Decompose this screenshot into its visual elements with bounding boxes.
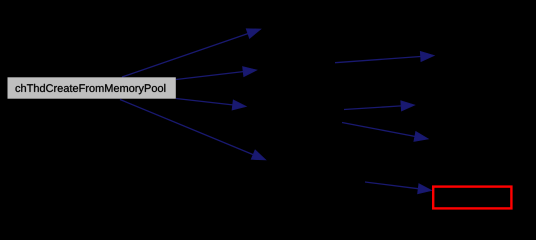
wire edge8 arrowhead [418,184,433,194]
wire edge6 shaft [344,106,401,110]
wire edge4 arrowhead [251,150,266,160]
wire edge3 arrowhead [232,100,247,110]
wire edge5 arrowhead [420,51,434,61]
wire edge5 shaft [335,57,421,63]
wire edge2 shaft [176,72,243,80]
wire edge1 shaft [122,34,248,77]
wire edge4 shaft [120,100,253,155]
node chThdCreateFromMemoryPool label [16,84,166,94]
wire edge7 shaft [342,123,415,137]
wire edge1 arrowhead [246,29,261,39]
wire edge7 arrowhead [414,131,429,141]
wire edge2 arrowhead [243,67,258,77]
node chThdCreateFromMemoryPool box [8,77,176,98]
wire edge8 shaft [365,182,418,189]
node (truncated, red) box [433,187,511,209]
wire edge6 arrowhead [401,101,415,111]
wire edge3 shaft [176,99,233,105]
